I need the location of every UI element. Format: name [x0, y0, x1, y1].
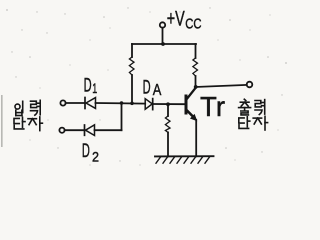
svg-text:D: D	[82, 140, 90, 162]
svg-text:D: D	[143, 77, 151, 99]
svg-text:D: D	[84, 75, 92, 97]
svg-text:Tr: Tr	[200, 91, 225, 122]
svg-text:+V: +V	[167, 8, 185, 31]
svg-text:2: 2	[92, 149, 99, 165]
svg-text:A: A	[153, 82, 162, 99]
svg-text:1: 1	[92, 80, 97, 96]
svg-text:CC: CC	[185, 17, 201, 33]
